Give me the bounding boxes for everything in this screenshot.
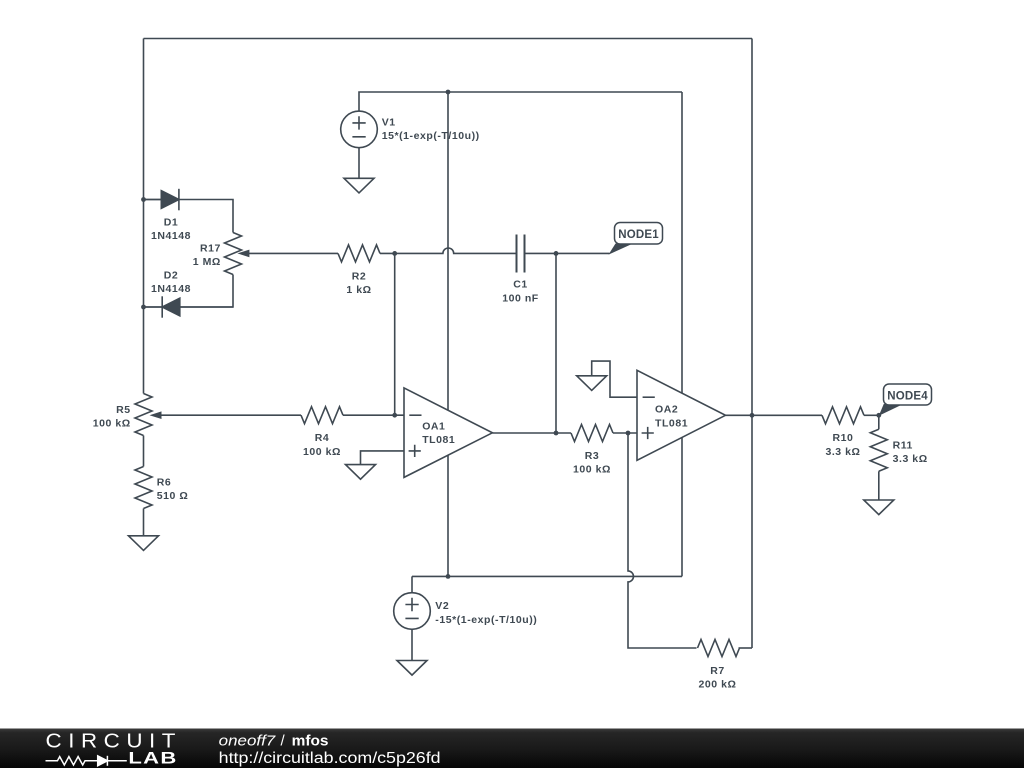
label D2: [151, 270, 191, 296]
wire V2 to bottom rail: [411, 576, 413, 592]
wire V2 to ground: [411, 629, 413, 660]
wire right feedback rail: [751, 39, 753, 649]
node flag NODE4: [879, 384, 932, 416]
footer username/title: [219, 732, 329, 749]
wire R10 to NODE4 junction: [864, 414, 879, 416]
label R4: [303, 432, 341, 458]
node flag NODE1: [609, 223, 663, 255]
label R17: [193, 243, 221, 269]
svg-text:D1: D1: [164, 216, 179, 228]
label D1: [151, 216, 191, 242]
label OA2: [655, 404, 688, 430]
svg-text:100 kΩ: 100 kΩ: [303, 446, 341, 458]
svg-text:OA1: OA1: [422, 420, 445, 432]
wire R5 bottom to R6: [143, 436, 145, 467]
label R10: [825, 432, 860, 458]
svg-text:mfos: mfos: [292, 732, 329, 749]
ground below V2: [397, 661, 427, 676]
resistor R6: [135, 467, 152, 509]
label R11: [893, 439, 928, 465]
label OA1: [422, 420, 455, 446]
diode D2: [144, 296, 234, 317]
svg-text:NODE4: NODE4: [887, 391, 928, 403]
ground below R6: [129, 536, 159, 551]
svg-text:3.3 kΩ: 3.3 kΩ: [825, 446, 860, 458]
wire R11 bottom lead to ground: [878, 471, 880, 500]
svg-text:R10: R10: [833, 432, 854, 444]
resistor R4: [301, 407, 343, 424]
wire OA2 V- supply: [681, 437, 683, 576]
svg-text:R11: R11: [893, 439, 913, 451]
wire V1 top rail: [359, 92, 682, 111]
svg-text:1N4148: 1N4148: [151, 230, 191, 242]
svg-text:510 Ω: 510 Ω: [157, 490, 189, 502]
svg-text:1N4148: 1N4148: [151, 283, 191, 295]
svg-text:R5: R5: [116, 404, 131, 416]
wire V1 to ground: [358, 148, 360, 179]
wire OA2 V+ supply: [681, 92, 683, 393]
svg-text:200 kΩ: 200 kΩ: [699, 679, 737, 691]
resistor R2: [338, 245, 380, 262]
resistor R7: [698, 640, 740, 657]
footer bar: [0, 729, 1024, 768]
svg-text:TL081: TL081: [655, 417, 688, 429]
svg-text:oneoff7: oneoff7: [219, 732, 276, 749]
potentiometer R5: [135, 394, 162, 436]
wire R17 wiper to R2: [246, 252, 338, 254]
wire OA1 V- supply: [447, 455, 449, 576]
svg-text:100 kΩ: 100 kΩ: [93, 418, 131, 430]
svg-text:NODE1: NODE1: [618, 229, 659, 241]
resistor R11: [870, 429, 887, 471]
wire R5 wiper to R4: [158, 414, 301, 416]
wire D2 branch: [144, 275, 234, 308]
label V1: [382, 116, 480, 142]
ground below R11: [864, 500, 894, 515]
label R2: [346, 270, 371, 296]
resistor R3: [571, 425, 613, 442]
svg-text:1 kΩ: 1 kΩ: [346, 284, 371, 296]
wire R11 top lead: [878, 415, 880, 429]
label V2: [435, 600, 537, 626]
svg-text:15*(1-exp(-T/10u)): 15*(1-exp(-T/10u)): [382, 130, 480, 142]
label R3: [573, 450, 611, 476]
svg-text:R3: R3: [585, 450, 600, 462]
ground at OA1 non-inverting input: [346, 465, 376, 480]
wire left rail: [143, 39, 145, 394]
wire R6 bottom to ground: [143, 509, 145, 536]
wire C1 down to OA1 output: [555, 253, 557, 433]
svg-text:-15*(1-exp(-T/10u)): -15*(1-exp(-T/10u)): [435, 614, 537, 626]
svg-text:3.3 kΩ: 3.3 kΩ: [893, 453, 928, 465]
svg-text:V1: V1: [382, 116, 396, 128]
wire R2 to C1 with hop over supply: [380, 248, 517, 253]
capacitor C1: [517, 235, 525, 273]
svg-text:OA2: OA2: [655, 404, 678, 416]
wire D1 branch: [144, 200, 234, 233]
svg-text:R17: R17: [200, 243, 221, 255]
ground below V1: [344, 178, 374, 193]
svg-text:V2: V2: [435, 600, 449, 612]
svg-text:LAB: LAB: [128, 749, 177, 768]
potentiometer R17: [225, 233, 250, 275]
ground at OA2 inverting input hook: [577, 376, 607, 391]
label R6: [157, 477, 189, 503]
diode D1: [144, 189, 179, 211]
svg-text:R6: R6: [157, 477, 172, 489]
svg-text:R2: R2: [352, 270, 367, 282]
svg-text:1 MΩ: 1 MΩ: [193, 256, 221, 268]
wire OA2 plus junction down to R7 with hop over V2 rail: [628, 433, 697, 648]
voltage source V2: [394, 593, 431, 630]
wire R2 down to OA1 inverting input: [394, 253, 396, 415]
wire OA1 non-inverting input to ground: [361, 451, 405, 465]
wire OA2 inverting input hook to ground: [592, 361, 637, 397]
svg-text:TL081: TL081: [422, 434, 455, 446]
label C1: [502, 279, 539, 305]
svg-text:100 nF: 100 nF: [502, 292, 539, 304]
resistor R10: [822, 407, 864, 424]
op-amp OA2: [637, 370, 726, 460]
svg-text:D2: D2: [164, 270, 179, 282]
wire bottom V2 rail: [412, 575, 682, 577]
svg-text:R4: R4: [315, 432, 330, 444]
svg-text:100 kΩ: 100 kΩ: [573, 464, 611, 476]
CircuitLab logo squiggle resistor-diode: [46, 756, 127, 766]
label R7: [699, 665, 737, 691]
wire top rail: [144, 38, 753, 40]
svg-text:http://circuitlab.com/c5p26fd: http://circuitlab.com/c5p26fd: [219, 750, 441, 767]
label R5: [93, 404, 131, 430]
voltage source V1: [341, 111, 378, 148]
svg-text:R7: R7: [710, 665, 725, 677]
wire R7 right lead: [739, 647, 753, 649]
wire OA1 V+ supply: [447, 92, 449, 410]
wire C1 to NODE1: [525, 252, 610, 254]
wire R4 to OA1 inverting input: [343, 414, 404, 416]
svg-text:C1: C1: [513, 279, 528, 291]
wire OA1 output to OA2 non-inverting input: [492, 432, 571, 434]
wire OA2 output to R10: [726, 414, 823, 416]
op-amp OA1: [404, 388, 492, 478]
